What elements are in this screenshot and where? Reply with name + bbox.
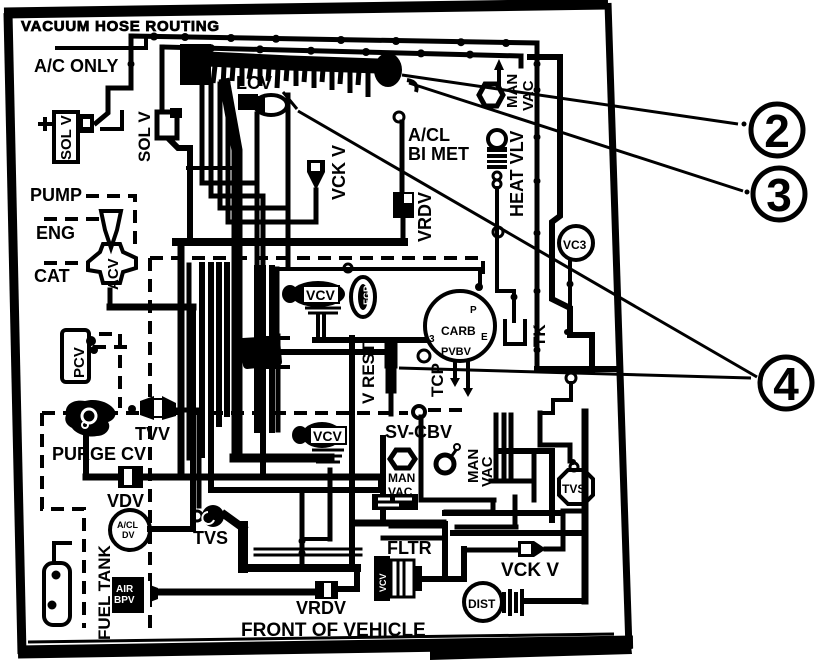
svg-text:FUEL TANK: FUEL TANK	[95, 545, 114, 640]
svg-text:BI MET: BI MET	[408, 144, 469, 164]
svg-text:BPV: BPV	[114, 595, 135, 606]
svg-text:VAC: VAC	[479, 456, 496, 487]
svg-text:VRDV: VRDV	[415, 192, 435, 242]
svg-text:VDV: VDV	[107, 491, 144, 511]
svg-text:MAN: MAN	[504, 74, 521, 108]
svg-text:TVV: TVV	[135, 424, 170, 444]
svg-text:SV-CBV: SV-CBV	[385, 422, 452, 442]
svg-text:AIR: AIR	[116, 584, 134, 595]
svg-text:VCK V: VCK V	[329, 145, 349, 200]
svg-text:ENG: ENG	[36, 223, 75, 243]
svg-text:VCV: VCV	[378, 573, 388, 592]
svg-text:HEAT VLV: HEAT VLV	[507, 131, 527, 217]
svg-text:MAN: MAN	[388, 471, 415, 485]
svg-text:E: E	[481, 332, 488, 343]
svg-text:PVBV: PVBV	[441, 346, 472, 358]
svg-text:PURGE CV: PURGE CV	[52, 444, 146, 464]
svg-text:3: 3	[429, 334, 435, 345]
svg-text:SOL V: SOL V	[58, 115, 75, 160]
svg-text:CAT: CAT	[34, 266, 70, 286]
svg-text:DIST: DIST	[468, 597, 496, 611]
svg-text:2: 2	[764, 105, 790, 157]
svg-text:VACUUM HOSE ROUTING: VACUUM HOSE ROUTING	[21, 18, 219, 35]
svg-text:A/C ONLY: A/C ONLY	[34, 56, 118, 76]
svg-text:A/CL: A/CL	[408, 125, 450, 145]
svg-text:4: 4	[773, 358, 799, 410]
svg-text:VCK V: VCK V	[501, 560, 559, 581]
svg-text:LCV: LCV	[236, 73, 272, 93]
svg-text:VC3: VC3	[563, 238, 587, 252]
svg-text:TVS: TVS	[562, 482, 585, 496]
svg-text:VCV: VCV	[313, 428, 342, 444]
svg-text:EGR: EGR	[362, 285, 372, 305]
svg-text:V REST: V REST	[359, 342, 378, 404]
svg-text:CARB: CARB	[441, 324, 476, 338]
svg-text:SOL V: SOL V	[135, 111, 154, 162]
svg-text:VRDV: VRDV	[296, 598, 346, 618]
svg-text:TCP: TCP	[428, 363, 447, 397]
svg-text:DV: DV	[122, 530, 135, 540]
svg-text:FLTR: FLTR	[387, 538, 432, 558]
svg-text:PCV: PCV	[71, 347, 88, 378]
svg-text:3: 3	[766, 169, 792, 221]
svg-text:P: P	[470, 305, 477, 316]
svg-text:VCV: VCV	[306, 287, 335, 303]
svg-text:FRONT OF VEHICLE: FRONT OF VEHICLE	[241, 620, 426, 641]
svg-text:A/CL: A/CL	[117, 520, 138, 530]
svg-text:TK: TK	[530, 324, 549, 347]
svg-text:VAC: VAC	[388, 485, 413, 499]
svg-text:PUMP: PUMP	[30, 185, 82, 205]
svg-text:TVS: TVS	[193, 528, 228, 548]
svg-text:VAC: VAC	[520, 80, 537, 111]
svg-text:ACV: ACV	[105, 258, 122, 290]
